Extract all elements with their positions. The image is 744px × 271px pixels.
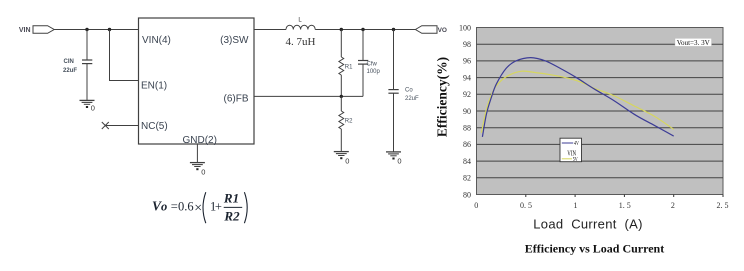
svg-text:22uF: 22uF bbox=[405, 96, 419, 102]
svg-text:NC(5): NC(5) bbox=[141, 121, 168, 132]
chart gridlines bbox=[477, 44, 724, 178]
svg-text:CIN: CIN bbox=[64, 59, 74, 65]
svg-text:(6)FB: (6)FB bbox=[224, 94, 249, 105]
no-connect X at NC(5) bbox=[102, 122, 109, 129]
y-axis labels 100..80 bbox=[459, 23, 471, 199]
wire EN branch (vertical + horizontal to EN(1)) bbox=[110, 30, 139, 81]
wire SW to inductor bbox=[254, 29, 286, 31]
capacitor Cfw 100p bbox=[358, 30, 381, 97]
chart plot area bbox=[477, 28, 724, 195]
svg-text:80: 80 bbox=[463, 190, 471, 199]
node junction at Cfw branch bbox=[361, 28, 364, 31]
svg-text:+: + bbox=[215, 200, 222, 214]
svg-text:0.6: 0.6 bbox=[178, 200, 194, 214]
resistor R2 bbox=[339, 96, 353, 151]
node junction at CIN bbox=[85, 28, 88, 31]
svg-text:100p: 100p bbox=[367, 69, 381, 75]
svg-text:0: 0 bbox=[91, 104, 95, 113]
svg-text:94: 94 bbox=[463, 73, 471, 82]
port connector VIN bbox=[33, 26, 54, 34]
svg-text:1. 5: 1. 5 bbox=[619, 201, 631, 210]
svg-text:4. 7uH: 4. 7uH bbox=[286, 36, 316, 48]
chart x-axis ticks bbox=[526, 195, 723, 198]
svg-text:88: 88 bbox=[463, 124, 471, 133]
port connector VO bbox=[415, 26, 437, 34]
svg-text:L: L bbox=[298, 17, 302, 23]
svg-text:=: = bbox=[171, 200, 178, 214]
svg-text:92: 92 bbox=[463, 90, 471, 99]
svg-text:R1: R1 bbox=[345, 64, 353, 70]
svg-text:VIN(4): VIN(4) bbox=[142, 35, 171, 46]
svg-text:1: 1 bbox=[574, 201, 578, 210]
formula Vo = 0.6 x (1 + R1/R2) bbox=[152, 191, 247, 224]
svg-text:0: 0 bbox=[397, 157, 401, 166]
node junction at R1 branch bbox=[340, 28, 343, 31]
wire GND(2) to ground bbox=[196, 144, 198, 163]
inductor L 4.7uH bbox=[286, 17, 316, 48]
svg-text:84: 84 bbox=[463, 157, 471, 166]
svg-text:Cfw: Cfw bbox=[367, 61, 378, 67]
wire NC stub bbox=[105, 125, 138, 127]
resistor R1 bbox=[339, 30, 353, 97]
svg-text:Vout=3. 3V: Vout=3. 3V bbox=[677, 40, 710, 47]
wire inductor to VO port bbox=[315, 29, 415, 31]
node junction at Co branch bbox=[392, 28, 395, 31]
svg-text:Efficiency vs Load Current: Efficiency vs Load Current bbox=[525, 242, 664, 256]
node junction at EN branch bbox=[108, 28, 111, 31]
svg-text:GND(2): GND(2) bbox=[183, 135, 217, 146]
svg-text:98: 98 bbox=[463, 40, 471, 49]
ground 0 (below R2) bbox=[334, 152, 350, 166]
x-axis labels 0..2.5 bbox=[474, 201, 728, 210]
svg-text:0: 0 bbox=[201, 167, 205, 176]
svg-text:90: 90 bbox=[463, 107, 471, 116]
svg-text:0: 0 bbox=[474, 201, 478, 210]
svg-text:5V: 5V bbox=[573, 157, 578, 163]
svg-text:4V: 4V bbox=[574, 141, 579, 147]
ground 0 (below GND(2)) bbox=[190, 163, 206, 177]
svg-text:VIN: VIN bbox=[19, 27, 31, 34]
svg-text:(3)SW: (3)SW bbox=[220, 35, 249, 46]
wire VIN to IC pin VIN(4) bbox=[54, 29, 138, 31]
svg-text:100: 100 bbox=[459, 23, 471, 32]
svg-text:R2: R2 bbox=[223, 208, 240, 223]
wire FB from IC to Cfw bottom bbox=[254, 95, 363, 97]
node junction FB / R1 / R2 bbox=[340, 95, 343, 98]
ground 0 (below Co) bbox=[386, 152, 402, 166]
legend box VIN 4V/5V bbox=[560, 138, 582, 163]
svg-text:×: × bbox=[194, 201, 202, 216]
svg-text:96: 96 bbox=[463, 57, 471, 66]
svg-text:86: 86 bbox=[463, 140, 471, 149]
svg-text:22uF: 22uF bbox=[63, 68, 77, 74]
svg-text:82: 82 bbox=[463, 174, 471, 183]
svg-text:EN(1): EN(1) bbox=[141, 80, 167, 91]
curve VIN=4V (blue) bbox=[482, 58, 673, 137]
svg-text:VO: VO bbox=[438, 27, 447, 34]
IC U1 regulator box bbox=[139, 18, 255, 144]
svg-text:2. 5: 2. 5 bbox=[717, 201, 729, 210]
svg-text:0: 0 bbox=[345, 156, 349, 165]
svg-text:R2: R2 bbox=[345, 118, 353, 124]
svg-text:R1: R1 bbox=[223, 191, 239, 206]
annotation box Vout=3.3V bbox=[675, 38, 712, 47]
ground 0 (below CIN) bbox=[80, 100, 95, 112]
svg-text:0. 5: 0. 5 bbox=[520, 201, 532, 210]
svg-text:2: 2 bbox=[671, 201, 675, 210]
curve VIN=5V (yellow) bbox=[481, 71, 673, 133]
svg-text:Load Current (A): Load Current (A) bbox=[533, 216, 642, 231]
svg-text:Efficiency(%): Efficiency(%) bbox=[435, 57, 450, 137]
svg-text:Co: Co bbox=[405, 88, 413, 94]
capacitor CIN 22uF bbox=[63, 30, 92, 101]
svg-text:Vo: Vo bbox=[152, 199, 167, 214]
capacitor Co 22uF bbox=[388, 30, 419, 152]
